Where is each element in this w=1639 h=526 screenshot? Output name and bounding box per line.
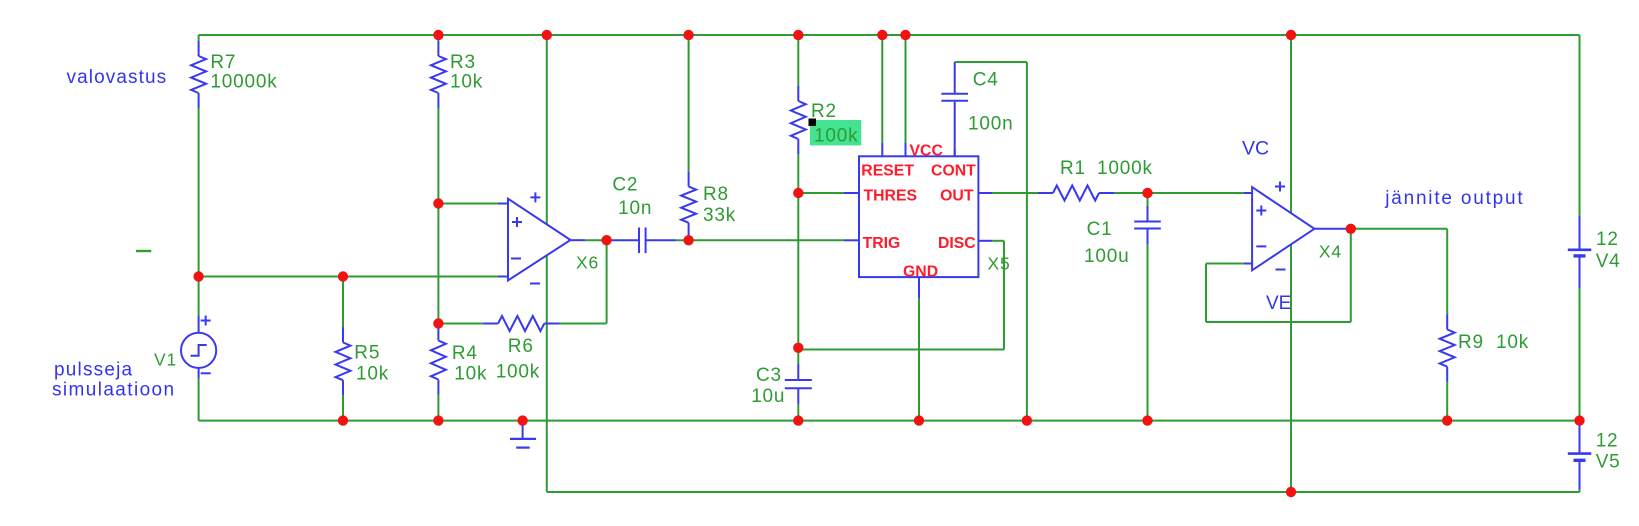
- svg-text:VCC: VCC: [910, 142, 943, 159]
- svg-text:C4: C4: [973, 70, 999, 91]
- svg-text:V1: V1: [154, 350, 177, 370]
- svg-text:C1: C1: [1087, 219, 1113, 240]
- svg-text:10k: 10k: [356, 364, 389, 385]
- svg-text:12: 12: [1596, 431, 1619, 452]
- svg-text:10n: 10n: [618, 198, 652, 219]
- svg-text:VC: VC: [1242, 138, 1269, 160]
- svg-text:10u: 10u: [751, 386, 785, 407]
- svg-text:OUT: OUT: [940, 187, 974, 204]
- svg-text:valovastus: valovastus: [67, 67, 168, 88]
- svg-text:10k: 10k: [1496, 332, 1529, 353]
- svg-text:100k: 100k: [814, 126, 858, 147]
- svg-text:10000k: 10000k: [210, 72, 277, 93]
- svg-text:12: 12: [1596, 229, 1619, 250]
- svg-text:R2: R2: [811, 101, 837, 122]
- svg-text:TRIG: TRIG: [863, 235, 901, 252]
- svg-text:100u: 100u: [1084, 246, 1129, 267]
- svg-text:C2: C2: [612, 174, 638, 195]
- svg-text:jännite output: jännite output: [1384, 188, 1524, 209]
- svg-text:C3: C3: [756, 365, 782, 386]
- svg-text:THRES: THRES: [864, 187, 918, 204]
- svg-text:R5: R5: [354, 343, 380, 364]
- svg-text:R6: R6: [508, 336, 534, 357]
- svg-text:R4: R4: [452, 343, 478, 364]
- svg-text:simulaatioon: simulaatioon: [52, 380, 175, 401]
- svg-text:X5: X5: [988, 254, 1011, 274]
- svg-text:10k: 10k: [450, 72, 483, 93]
- svg-text:VE: VE: [1266, 293, 1291, 314]
- svg-text:R3: R3: [450, 52, 476, 73]
- svg-text:R7: R7: [210, 52, 236, 73]
- svg-text:R9: R9: [1458, 332, 1484, 353]
- svg-text:R8: R8: [703, 184, 729, 205]
- svg-text:GND: GND: [903, 263, 938, 280]
- svg-text:CONT: CONT: [931, 162, 976, 179]
- svg-text:10k: 10k: [454, 364, 487, 385]
- svg-text:100n: 100n: [968, 113, 1013, 134]
- svg-text:1000k: 1000k: [1097, 158, 1153, 179]
- svg-text:X6: X6: [576, 253, 599, 273]
- svg-text:X4: X4: [1319, 242, 1342, 262]
- svg-text:RESET: RESET: [861, 162, 914, 179]
- svg-text:33k: 33k: [703, 205, 736, 226]
- svg-text:DISC: DISC: [938, 235, 976, 252]
- svg-text:V4: V4: [1596, 251, 1621, 272]
- svg-text:100k: 100k: [496, 362, 540, 383]
- svg-text:R1: R1: [1060, 158, 1086, 179]
- svg-text:V5: V5: [1596, 452, 1621, 473]
- svg-text:pulsseja: pulsseja: [54, 360, 133, 381]
